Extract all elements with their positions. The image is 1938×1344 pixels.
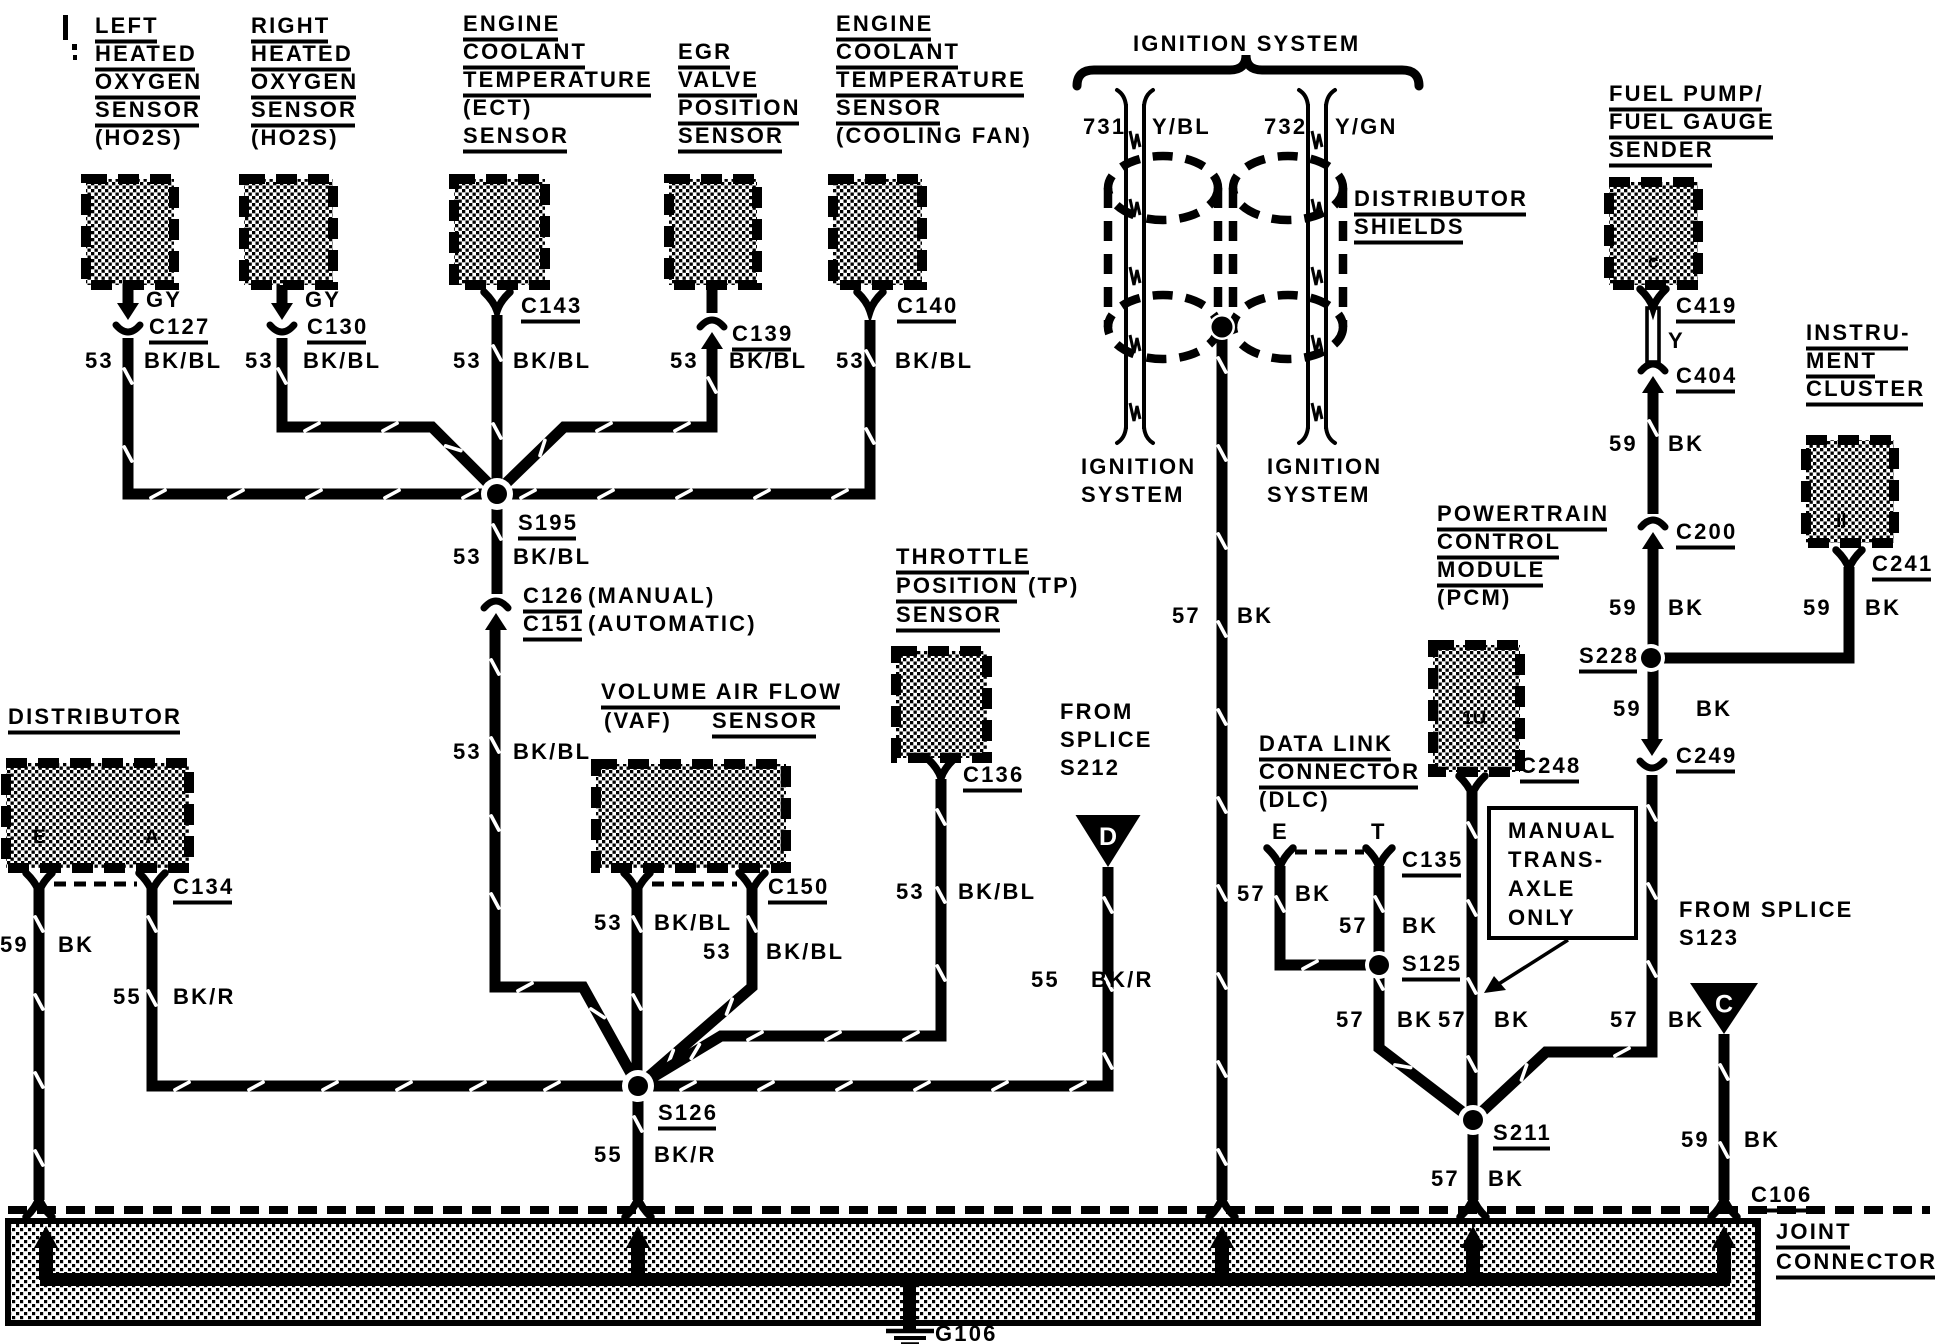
callout arrow to PCM ground wire [1497,940,1568,985]
svg-text:BK: BK [1668,431,1704,456]
wire 53 BK/BL from TP sensor C136 to splice S126 [638,779,941,1086]
svg-text:53: 53 [453,739,482,764]
svg-text:ENGINE: ENGINE [463,11,561,36]
connector C106 dashed line [8,1206,1930,1214]
svg-text:BK/R: BK/R [654,1142,717,1167]
svg-text:SYSTEM: SYSTEM [1081,482,1185,507]
distributor shield cylinder (right) [1233,156,1343,220]
shielded ignition wire 731 Y/BL [1124,104,1128,429]
connector C135 cups at DLC pins E and T [1267,848,1293,867]
svg-text:BK/BL: BK/BL [513,348,591,373]
svg-text:BK/BL: BK/BL [766,939,844,964]
wire 59 BK from splice S228 to connector C249 [1648,658,1659,741]
svg-text:53: 53 [85,348,114,373]
svg-text:53: 53 [453,348,482,373]
svg-text:BK/BL: BK/BL [895,348,973,373]
svg-text:G106: G106 [935,1321,998,1344]
wire entry cup at splice C wire [1711,1198,1737,1217]
svg-text:SHIELDS: SHIELDS [1354,214,1465,239]
ground bus arrow at splice C wire [1717,1242,1731,1280]
svg-text:CONNECTOR: CONNECTOR [1776,1249,1937,1274]
svg-text:(AUTOMATIC): (AUTOMATIC) [588,611,757,636]
svg-text:53: 53 [453,544,482,569]
sensor box: ECT sensor (cooling fan) [833,179,922,285]
svg-text:C135: C135 [1402,847,1463,872]
svg-text:C130: C130 [307,314,368,339]
svg-text:BK/BL: BK/BL [513,544,591,569]
connector C134 cups at distributor pins E and A [26,873,52,892]
svg-text:S212: S212 [1060,755,1120,780]
wire Y from fuel sender C419 to C404 (thin) [1647,308,1659,362]
svg-text:C248: C248 [1520,753,1581,778]
svg-text:FROM: FROM [1060,699,1134,724]
wire 57 BK from DLC pin T through S125 to splice S211 [1379,866,1473,1120]
svg-text:BK: BK [1668,595,1704,620]
svg-text:(VAF): (VAF) [604,708,672,733]
wire entry cup at S211 wire [1460,1198,1486,1217]
wire entry cup at distributor shields wire [1209,1198,1235,1217]
svg-text:RIGHT: RIGHT [251,13,330,38]
svg-text:BK: BK [1494,1007,1530,1032]
svg-text:AXLE: AXLE [1508,876,1575,901]
svg-text:IGNITION: IGNITION [1081,454,1196,479]
svg-text:732: 732 [1264,114,1307,139]
svg-text:BK/BL: BK/BL [958,879,1036,904]
connector C126/C151 [484,601,508,608]
svg-text:S211: S211 [1493,1120,1552,1145]
connector C200 [1641,520,1665,527]
wire 53 BK/BL from C130 to splice S195 [277,285,288,304]
svg-text:(COOLING FAN): (COOLING FAN) [836,123,1032,148]
connector C150 cups at VAF pins [624,873,650,892]
svg-text:SENSOR: SENSOR [678,123,784,148]
module box: powertrain control module, pin 1U [1433,645,1520,772]
svg-text:S195: S195 [518,510,578,535]
svg-text:BK/R: BK/R [173,984,236,1009]
svg-text:1U: 1U [1462,708,1486,729]
wire 59 BK from splice S123 triangle C to joint connector C106 [1719,1034,1730,1200]
brace: ignition system [1077,55,1419,86]
svg-text:INSTRU-: INSTRU- [1806,320,1911,345]
wire entry cup at distributor pin E wire [26,1198,52,1217]
wire 57 BK from connector C249 to splice S211 [1473,775,1652,1120]
svg-text:C241: C241 [1872,551,1933,576]
svg-text:C249: C249 [1676,743,1737,768]
svg-text:731: 731 [1083,114,1126,139]
wire 59 BK from splice S228 to instrument cluster C241 [1653,567,1849,658]
svg-text:BK: BK [1402,913,1438,938]
svg-text:S125: S125 [1402,951,1462,976]
svg-text:C143: C143 [521,293,582,318]
svg-text:59: 59 [1613,696,1642,721]
svg-text:DISTRIBUTOR: DISTRIBUTOR [1354,186,1528,211]
wire 55 BK/R from splice S212 triangle D to splice S126 [638,867,1108,1086]
svg-text:SENSOR: SENSOR [251,97,357,122]
svg-text:(HO2S): (HO2S) [95,125,183,150]
sensor box: EGR valve position sensor [669,179,757,285]
svg-text:BK: BK [1865,595,1901,620]
wire 53 BK/BL from C143 to splice S195 [492,315,503,494]
wire 53 BK/BL from C139 to splice S195 [707,285,718,313]
svg-text:57: 57 [1438,1007,1467,1032]
svg-text:FUEL PUMP/: FUEL PUMP/ [1609,81,1764,106]
svg-text:T: T [1371,819,1387,844]
svg-text:CONTROL: CONTROL [1437,529,1561,554]
component box: distributor with pins E and A [6,763,189,868]
wire 53 BK/BL from splice S195 to connector C126/C151 [492,494,503,594]
wire 59 BK from C404 to C200 [1648,390,1659,514]
connector C127 [117,303,139,320]
svg-text:C: C [1715,991,1733,1019]
svg-text:FROM SPLICE: FROM SPLICE [1679,897,1854,922]
connector C241 cup [1836,550,1862,569]
svg-text:TRANS-: TRANS- [1508,847,1604,872]
svg-text:BK/BL: BK/BL [303,348,381,373]
sensor box: throttle position sensor [896,651,987,758]
junction dot: distributor shields drain [1209,314,1235,340]
svg-text:BK: BK [1237,603,1273,628]
svg-text:HEATED: HEATED [95,41,197,66]
svg-text:MENT: MENT [1806,348,1877,373]
svg-text:BK: BK [1696,696,1732,721]
distributor shield cylinder (left) [1108,156,1218,220]
wire 53 BK/BL from C140 to splice S195 [497,320,870,494]
svg-text:COOLANT: COOLANT [836,39,960,64]
svg-text:GY: GY [305,287,341,312]
splice S126 [622,1070,654,1102]
svg-text:S123: S123 [1679,925,1739,950]
wire 55 BK/R from distributor pin A to splice S126 [152,886,638,1086]
svg-text:C151: C151 [523,611,584,636]
svg-text:59: 59 [1803,595,1832,620]
svg-text:Y: Y [1668,328,1685,353]
connector C136 cup [928,759,954,778]
svg-text:Y/GN: Y/GN [1335,114,1398,139]
wire 59 BK from distributor pin E to joint connector [34,886,45,1200]
svg-text:TEMPERATURE: TEMPERATURE [463,67,653,92]
svg-text:c: c [1648,252,1659,273]
svg-text:57: 57 [1339,913,1368,938]
splice reference triangle D (from splice S212) [1076,815,1141,867]
svg-text:C134: C134 [173,874,234,899]
connector C419 cup [1640,289,1666,308]
joint connector internal ground bus [40,1273,1730,1286]
svg-text:59: 59 [1681,1127,1710,1152]
svg-text:Il: Il [1836,511,1847,532]
svg-text:C136: C136 [963,762,1024,787]
connector C404 [1641,364,1665,371]
svg-text:53: 53 [670,348,699,373]
wire entry cup at S126 wire [625,1198,651,1217]
svg-text:C150: C150 [768,874,829,899]
svg-text:S228: S228 [1579,643,1639,668]
sensor box: volume air flow sensor [596,764,786,868]
svg-text:(TP): (TP) [1028,573,1080,598]
ground bus arrow at S211 wire [1466,1242,1480,1280]
svg-text:59: 59 [0,932,29,957]
sensor box: fuel pump / fuel gauge sender, pin c [1609,182,1698,285]
sensor box: right heated oxygen sensor [244,179,333,285]
svg-text:CONNECTOR: CONNECTOR [1259,759,1420,784]
svg-text:BK: BK [1397,1007,1433,1032]
ground G106 stub and symbol [903,1280,916,1329]
svg-text:BK: BK [1668,1007,1704,1032]
wire 53 BK/BL trunk from C126/C151 to splice S126 [495,629,638,1086]
svg-text:55: 55 [113,984,142,1009]
svg-text:C126: C126 [523,583,584,608]
svg-text:CLUSTER: CLUSTER [1806,376,1925,401]
svg-text:53: 53 [896,879,925,904]
wire 55 BK/R from splice S126 to joint connector [633,1086,644,1200]
wire 53 BK/BL from C127 to splice S195 [123,285,134,304]
scan artifact marks at top left [63,15,68,40]
svg-text:53: 53 [703,939,732,964]
svg-text:(PCM): (PCM) [1437,585,1512,610]
svg-text:BK/BL: BK/BL [729,348,807,373]
svg-text:MANUAL: MANUAL [1508,818,1617,843]
svg-text:JOINT: JOINT [1776,1219,1852,1244]
svg-text:SYSTEM: SYSTEM [1267,482,1371,507]
svg-text:55: 55 [1031,967,1060,992]
svg-text:IGNITION SYSTEM: IGNITION SYSTEM [1133,31,1360,56]
svg-text:C200: C200 [1676,519,1737,544]
svg-text:BK: BK [1488,1166,1524,1191]
svg-text:(DLC): (DLC) [1259,787,1330,812]
connector C130 [271,303,293,320]
svg-text:C139: C139 [732,321,793,346]
connector C143 cup [484,292,510,311]
svg-text:(HO2S): (HO2S) [251,125,339,150]
svg-text:D: D [1099,823,1117,851]
sensor box: ECT sensor [454,179,545,285]
svg-text:BK/R: BK/R [1091,967,1154,992]
svg-text:BK/BL: BK/BL [144,348,222,373]
svg-text:SENSOR: SENSOR [836,95,942,120]
svg-text:57: 57 [1336,1007,1365,1032]
svg-text:IGNITION: IGNITION [1267,454,1382,479]
svg-text:59: 59 [1609,431,1638,456]
svg-text:E: E [1272,819,1289,844]
svg-text:SENDER: SENDER [1609,137,1714,162]
svg-text:OXYGEN: OXYGEN [251,69,358,94]
wire 53 BK/BL from VAF sensor left pin to splice S126 [632,886,643,1086]
svg-text:53: 53 [836,348,865,373]
svg-text:57: 57 [1172,603,1201,628]
svg-text:FUEL GAUGE: FUEL GAUGE [1609,109,1775,134]
svg-text:VALVE: VALVE [678,67,759,92]
wire 57 BK from PCM C248 to splice S211 [1467,792,1478,1120]
svg-text:A: A [145,827,159,848]
splice S125 [1365,951,1393,979]
callout box: manual transaxle only [1489,808,1636,938]
svg-text:SENSOR: SENSOR [896,602,1002,627]
svg-text:POSITION: POSITION [678,95,801,120]
svg-text:VOLUME AIR FLOW: VOLUME AIR FLOW [601,679,842,704]
splice S228 [1637,644,1665,672]
svg-text:S126: S126 [658,1100,718,1125]
svg-text:POSITION: POSITION [896,573,1019,598]
svg-text:C419: C419 [1676,293,1737,318]
connector C139 [700,320,724,327]
svg-text:SENSOR: SENSOR [95,97,201,122]
svg-text:POWERTRAIN: POWERTRAIN [1437,501,1609,526]
connector C248 cup [1459,776,1485,795]
svg-text:57: 57 [1431,1166,1460,1191]
shielded ignition wire 732 Y/GN [1306,104,1310,429]
svg-text:C140: C140 [897,293,958,318]
svg-text:BK: BK [1295,881,1331,906]
svg-text:MODULE: MODULE [1437,557,1546,582]
ground bus arrow at distributor wire [39,1242,53,1280]
svg-text:THROTTLE: THROTTLE [896,544,1031,569]
svg-text:E: E [33,827,46,848]
svg-text:SENSOR: SENSOR [463,123,569,148]
svg-text:BK: BK [58,932,94,957]
svg-text:53: 53 [245,348,274,373]
splice S211 [1458,1105,1488,1135]
splice reference triangle C (from splice S123) [1690,983,1758,1034]
wire 53 BK/BL from VAF sensor pin C150 to splice S126 [638,886,752,1086]
wire 57 BK from distributor shields to joint connector [1217,327,1228,1200]
connector C249 [1641,739,1663,756]
svg-text:C106: C106 [1751,1182,1812,1207]
svg-text:57: 57 [1237,881,1266,906]
svg-text:SPLICE: SPLICE [1060,727,1153,752]
svg-text:BK/BL: BK/BL [513,739,591,764]
joint connector bar [8,1221,1758,1323]
svg-text:57: 57 [1610,1007,1639,1032]
svg-text:EGR: EGR [678,39,732,64]
svg-text:COOLANT: COOLANT [463,39,587,64]
svg-text:DISTRIBUTOR: DISTRIBUTOR [8,704,182,729]
svg-text:ONLY: ONLY [1508,905,1576,930]
svg-text:(MANUAL): (MANUAL) [588,583,716,608]
svg-text:GY: GY [146,287,182,312]
svg-text:BK/BL: BK/BL [654,910,732,935]
sensor box: instrument cluster, pin Il [1806,440,1894,543]
wire 57 BK from DLC pin E to splice S125 [1280,866,1379,965]
splice S195 [481,478,513,510]
svg-text:53: 53 [594,910,623,935]
svg-text:OXYGEN: OXYGEN [95,69,202,94]
svg-text:ENGINE: ENGINE [836,11,934,36]
svg-text:HEATED: HEATED [251,41,353,66]
connector C140 cup [857,292,883,311]
svg-text:LEFT: LEFT [95,13,159,38]
svg-text:55: 55 [594,1142,623,1167]
svg-text:(ECT): (ECT) [463,95,533,120]
svg-text:SENSOR: SENSOR [712,708,818,733]
svg-text:C404: C404 [1676,363,1737,388]
svg-text:DATA LINK: DATA LINK [1259,731,1393,756]
sensor box: left heated oxygen sensor [86,179,174,285]
ground bus arrow at distributor shields wire [1215,1242,1229,1280]
svg-text:BK: BK [1744,1127,1780,1152]
svg-text:TEMPERATURE: TEMPERATURE [836,67,1026,92]
svg-text:Y/BL: Y/BL [1152,114,1211,139]
wire 59 BK from C200 to splice S228 [1648,546,1659,658]
svg-text:59: 59 [1609,595,1638,620]
ground bus arrow at S126 wire [631,1242,645,1280]
svg-text:C127: C127 [149,314,210,339]
wire 57 BK from splice S211 to joint connector [1468,1120,1479,1200]
